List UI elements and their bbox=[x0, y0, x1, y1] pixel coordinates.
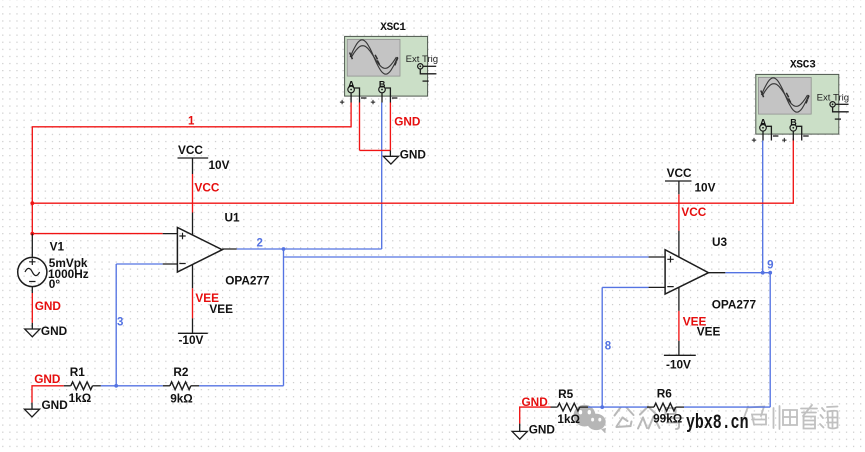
V1 ground GND label bbox=[41, 324, 68, 338]
resistor R6 bbox=[647, 403, 684, 411]
svg-text:VCC: VCC bbox=[178, 143, 203, 157]
ground at R1 bbox=[24, 403, 39, 417]
wire R1 right to junction to R2 left bbox=[101, 385, 163, 387]
svg-text:OPA277: OPA277 bbox=[712, 298, 757, 312]
U1 label bbox=[225, 211, 241, 225]
wire XSC1 A- / B- to GND (red) bbox=[360, 103, 391, 151]
svg-text:R1: R1 bbox=[70, 365, 86, 379]
svg-text:R6: R6 bbox=[657, 387, 673, 401]
svg-text:0°: 0° bbox=[49, 277, 61, 291]
svg-text:8: 8 bbox=[605, 341, 612, 353]
wire node 2 to U3 + input bbox=[284, 256, 649, 258]
node 2 label bbox=[257, 238, 263, 250]
U1 VEE net label (red) bbox=[195, 291, 219, 305]
junction node 9 right bbox=[768, 271, 772, 275]
ground at XSC1 bbox=[383, 150, 398, 164]
svg-text:XSC1: XSC1 bbox=[380, 22, 406, 34]
R5 ground GND label bbox=[529, 423, 556, 437]
junction V1 top bbox=[30, 232, 34, 236]
wire U1 VEE red segment bbox=[192, 288, 194, 318]
wire R2 right to feedback vertical bbox=[199, 385, 283, 387]
svg-text:GND: GND bbox=[34, 372, 61, 386]
wire R5 right to junction to R6 left bbox=[588, 406, 647, 408]
oscilloscope XSC3 bbox=[756, 74, 839, 134]
wire R1 left to GND (red) bbox=[32, 386, 64, 403]
svg-text:R5: R5 bbox=[558, 387, 574, 401]
junction node 3 / R1-R2 bbox=[114, 384, 118, 388]
wire node 9: U3 out, riser to XSC3 A bbox=[725, 141, 770, 273]
junction node 2 bbox=[282, 247, 286, 251]
XSC1 ground GND label bbox=[400, 148, 427, 162]
node 9 label bbox=[767, 260, 773, 272]
U3 VCC net label (red) bbox=[681, 205, 706, 219]
R5 ground red GND net label bbox=[522, 395, 549, 409]
resistor R1 bbox=[64, 382, 101, 390]
U3 VEE label (black) bbox=[697, 325, 721, 339]
oscilloscope XSC1 bbox=[345, 36, 428, 96]
U1 VEE label (black) bbox=[209, 302, 233, 316]
U1 VCC net label (red) bbox=[195, 181, 220, 195]
watermark char gong bbox=[615, 408, 634, 428]
svg-text:GND: GND bbox=[394, 115, 421, 129]
svg-text:-10V: -10V bbox=[179, 333, 204, 347]
svg-text:GND: GND bbox=[41, 324, 68, 338]
svg-text:1: 1 bbox=[188, 116, 195, 128]
svg-text:9: 9 bbox=[767, 260, 773, 272]
svg-text:VCC: VCC bbox=[681, 205, 706, 219]
U3 part value OPA277 bbox=[712, 298, 757, 312]
XSC3 label bbox=[790, 59, 816, 71]
svg-text:V1: V1 bbox=[50, 240, 65, 254]
V1 ground red GND net label bbox=[35, 299, 62, 313]
watermark right char 1 bbox=[741, 407, 766, 427]
watermark ybx8.cn bbox=[686, 412, 749, 435]
node 3 label bbox=[117, 317, 123, 329]
U3 VCC power symbol bbox=[665, 166, 716, 195]
R5 labels 1k bbox=[557, 387, 580, 426]
junction node 8 / R5-R6 bbox=[600, 405, 604, 409]
node 8 label bbox=[605, 341, 612, 353]
op-amp U1 bbox=[163, 158, 237, 333]
svg-text:1kΩ: 1kΩ bbox=[69, 391, 92, 405]
U3 VEE power symbol -10V bbox=[664, 355, 696, 371]
XSC1 Ext Trig pin bbox=[406, 54, 439, 81]
watermark right char 4 (hai) bbox=[820, 407, 838, 429]
wire node 2 feedback vertical to R2 bbox=[283, 249, 285, 386]
resistor R2 bbox=[163, 382, 199, 390]
svg-text:10V: 10V bbox=[695, 181, 716, 195]
svg-text:GND: GND bbox=[42, 398, 69, 412]
svg-text:ybx8.cn: ybx8.cn bbox=[686, 412, 749, 435]
svg-text:A: A bbox=[760, 118, 767, 128]
svg-text:99kΩ: 99kΩ bbox=[653, 411, 682, 425]
svg-text:9kΩ: 9kΩ bbox=[170, 391, 193, 405]
U3 VEE net label (red) bbox=[683, 315, 707, 329]
XSC1 A B terminals bbox=[340, 79, 398, 104]
U1 VCC power symbol bbox=[178, 143, 230, 172]
R1 ground red GND net label bbox=[34, 372, 61, 386]
wire node 3: U1 - input to R1/R2 junction bbox=[116, 264, 163, 386]
watermark wechat icon bbox=[574, 405, 607, 434]
V1 labels bbox=[48, 240, 89, 292]
R6 labels 99k bbox=[653, 387, 682, 426]
wire node 2: U1 out to XSC1 B riser bbox=[237, 103, 382, 250]
svg-text:XSC3: XSC3 bbox=[790, 59, 816, 71]
svg-text:GND: GND bbox=[529, 423, 556, 437]
source V1 bbox=[18, 234, 47, 293]
XSC3 Ext Trig pin bbox=[817, 93, 850, 120]
svg-text:B: B bbox=[790, 118, 797, 128]
ground at V1 bbox=[25, 323, 40, 337]
svg-text:U1: U1 bbox=[225, 211, 241, 225]
ground at R5 bbox=[512, 424, 527, 440]
XSC3 A B terminals bbox=[752, 118, 809, 143]
wire R5 left to GND (red) bbox=[520, 407, 551, 424]
svg-text:OPA277: OPA277 bbox=[225, 274, 270, 288]
wire U1 VCC red segment bbox=[192, 174, 194, 213]
wire R6 right to node 9 vertical bbox=[684, 273, 770, 407]
svg-text:VCC: VCC bbox=[667, 166, 692, 180]
svg-text:GND: GND bbox=[35, 299, 62, 313]
wire net 1: XSC1 A+ down, left, down to V1 top bbox=[32, 103, 351, 234]
XSC1 label bbox=[380, 22, 406, 34]
watermark right char 3 (kan) bbox=[801, 405, 817, 429]
svg-text:VEE: VEE bbox=[209, 302, 233, 316]
svg-text:U3: U3 bbox=[712, 235, 728, 249]
svg-text:VCC: VCC bbox=[195, 181, 220, 195]
svg-text:GND: GND bbox=[400, 148, 427, 162]
svg-text:10V: 10V bbox=[209, 158, 230, 172]
svg-text:3: 3 bbox=[117, 317, 123, 329]
R2 labels 9k bbox=[170, 365, 193, 405]
svg-text:B: B bbox=[379, 79, 386, 89]
svg-text:-10V: -10V bbox=[666, 358, 691, 372]
svg-text:1kΩ: 1kΩ bbox=[557, 412, 580, 426]
svg-text:GND: GND bbox=[522, 395, 549, 409]
U1 part value OPA277 bbox=[225, 274, 270, 288]
svg-text:A: A bbox=[348, 79, 355, 89]
R1 ground GND label bbox=[42, 398, 69, 412]
watermark right char 2 bbox=[774, 406, 798, 429]
svg-text:2: 2 bbox=[257, 238, 263, 250]
wire V1 top to U1 + input (red) bbox=[32, 233, 162, 235]
wire VCC rail horizontal + riser to XSC3 B bbox=[32, 139, 793, 204]
watermark char hao bbox=[663, 408, 684, 429]
junction rail / left riser bbox=[30, 201, 34, 205]
op-amp U3 bbox=[649, 181, 726, 355]
wire V1 bottom to GND (red) bbox=[31, 293, 33, 323]
XSC1 ground red GND net label bbox=[394, 115, 421, 129]
U1 VEE power symbol -10V bbox=[178, 333, 208, 347]
node 1 label bbox=[188, 116, 195, 128]
wire node 8: U3 - input to R5/R6 junction bbox=[602, 287, 648, 407]
U3 label bbox=[712, 235, 728, 249]
R1 labels 1k bbox=[69, 365, 92, 405]
watermark char zhong bbox=[638, 407, 660, 429]
wire U3 VCC red segment bbox=[678, 194, 680, 231]
svg-text:R2: R2 bbox=[173, 365, 189, 379]
svg-text:VEE: VEE bbox=[697, 325, 721, 339]
resistor R5 bbox=[551, 403, 589, 411]
svg-text:Ext Trig: Ext Trig bbox=[406, 54, 439, 65]
wire U3 VEE red segment bbox=[678, 311, 680, 341]
junction node 9 left bbox=[761, 271, 765, 275]
